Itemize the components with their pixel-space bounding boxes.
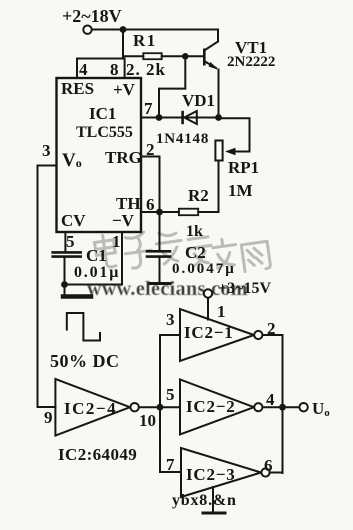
- svg-text:4: 4: [79, 60, 88, 79]
- wire pin7 line: [141, 117, 219, 119]
- wire R2 right lead: [198, 211, 218, 213]
- svg-text:1M: 1M: [228, 181, 253, 200]
- wiper arrow: [225, 148, 236, 155]
- inverter IC2-4: [55, 379, 130, 436]
- svg-text:IC2:64049: IC2:64049: [58, 445, 137, 464]
- svg-text:IC2−3: IC2−3: [186, 465, 236, 484]
- node emitter junction: [215, 114, 222, 121]
- svg-text:R1: R1: [133, 31, 157, 50]
- svg-text:2N2222: 2N2222: [227, 54, 275, 70]
- svg-text:8: 8: [110, 60, 119, 79]
- svg-text:TRG: TRG: [105, 148, 142, 167]
- svg-text:0.01μ: 0.01μ: [74, 264, 120, 281]
- svg-text:3: 3: [166, 310, 175, 329]
- svg-text:50% DC: 50% DC: [50, 351, 120, 371]
- resistor R2: [179, 209, 198, 216]
- svg-text:R2: R2: [188, 186, 209, 205]
- wm glyph 5: [212, 238, 239, 269]
- node pin6 junction: [156, 209, 163, 216]
- wire R1 right lead: [162, 55, 204, 57]
- wire pin1 supply: [207, 298, 209, 320]
- svg-text:1N4148: 1N4148: [156, 131, 209, 147]
- wire pin5 stub: [64, 232, 66, 252]
- wire RP1 wiper loop: [219, 118, 250, 151]
- svg-text:4: 4: [266, 390, 275, 409]
- svg-text:TLC555: TLC555: [76, 124, 133, 141]
- wire R1 left lead: [123, 55, 143, 57]
- wm glyph 2: [123, 231, 154, 269]
- capacitor C2: [147, 212, 170, 282]
- node ground junction: [61, 281, 68, 288]
- node bus junction: [157, 404, 164, 411]
- svg-text:7: 7: [144, 99, 153, 118]
- wire IC2-3 output: [270, 472, 283, 474]
- svg-text:IC2−1: IC2−1: [184, 323, 234, 342]
- node pin7 junction: [156, 114, 163, 121]
- inverter IC2-2: [180, 380, 254, 435]
- svg-text:2: 2: [267, 319, 276, 338]
- svg-text:2. 2k: 2. 2k: [126, 60, 166, 79]
- wm glyph 3: [155, 230, 184, 264]
- wire input bus: [159, 335, 161, 472]
- svg-text:1k: 1k: [186, 223, 203, 240]
- svg-text:IC2−4: IC2−4: [64, 399, 117, 418]
- svg-text:+V: +V: [113, 80, 136, 99]
- wire to +V pins: [122, 30, 124, 59]
- svg-text:6: 6: [146, 195, 155, 214]
- svg-text:IC1: IC1: [89, 104, 116, 123]
- svg-text:2: 2: [146, 140, 155, 159]
- svg-text:6: 6: [264, 456, 273, 475]
- svg-text:VD1: VD1: [182, 91, 215, 110]
- diode VD1: [181, 111, 197, 124]
- svg-text:5: 5: [166, 385, 175, 404]
- watermark chinese glyphs: [94, 230, 271, 271]
- wire pin6 line: [141, 211, 179, 213]
- resistor R1: [143, 53, 161, 59]
- svg-text:−V: −V: [112, 211, 135, 230]
- svg-text:1: 1: [217, 302, 226, 321]
- wm glyph 6: [241, 241, 271, 271]
- wire IC2-1 output: [263, 335, 283, 473]
- ground main: [63, 285, 91, 297]
- wm glyph 4: [186, 236, 214, 266]
- svg-text:1: 1: [112, 232, 121, 251]
- wm glyph 1: [94, 234, 117, 269]
- supply terminal +3~15V: [204, 289, 212, 297]
- svg-text:ybx8.&n: ybx8.&n: [172, 492, 237, 509]
- ground IC2: [203, 512, 225, 515]
- wire feedback loop: [159, 56, 185, 117]
- IC1 box: [57, 78, 142, 232]
- svg-text:7: 7: [166, 455, 175, 474]
- svg-text:C1: C1: [86, 246, 107, 265]
- svg-text:RP1: RP1: [228, 158, 259, 177]
- capacitor C1: [53, 252, 81, 284]
- square wave symbol: [67, 313, 100, 341]
- svg-text:10: 10: [139, 411, 156, 430]
- wire IC2-2 input: [160, 406, 180, 408]
- wire pin2 stub: [141, 157, 160, 213]
- IC1 pin bracket (pins 4,8): [77, 59, 125, 79]
- node output junction: [279, 404, 286, 411]
- svg-text:+2~18V: +2~18V: [62, 6, 122, 26]
- wire IC2 ground: [212, 487, 214, 512]
- svg-text:3: 3: [42, 141, 51, 160]
- wire top rail: [92, 29, 218, 31]
- supply terminal +2~18V: [83, 26, 91, 34]
- svg-text:CV: CV: [61, 211, 86, 230]
- wire IC2-3 input: [160, 471, 181, 473]
- svg-text:9: 9: [44, 408, 53, 427]
- terminal Uo: [299, 403, 307, 411]
- wire pin3 output line: [38, 166, 57, 408]
- wire RP1 bottom: [218, 161, 220, 213]
- wire IC2-4 output: [139, 406, 160, 408]
- svg-text:IC2−2: IC2−2: [186, 397, 236, 416]
- wire pin1 stub: [65, 232, 123, 285]
- wire IC2-2 output: [263, 406, 300, 408]
- transistor Q VT1: [203, 30, 219, 118]
- svg-text:RES: RES: [61, 79, 94, 98]
- svg-text:0.0047μ: 0.0047μ: [172, 261, 236, 277]
- node top junction: [120, 26, 127, 33]
- potentiometer RP1: [215, 141, 222, 161]
- wire IC2-1 input: [160, 334, 180, 336]
- ground under C2: [150, 282, 170, 285]
- inverter IC2-1: [180, 309, 254, 361]
- inverter IC2-3: [181, 448, 261, 497]
- svg-text:5: 5: [66, 232, 75, 251]
- node base junction: [182, 53, 189, 60]
- svg-text:C2: C2: [185, 243, 206, 262]
- svg-text:+3~15V: +3~15V: [218, 280, 271, 297]
